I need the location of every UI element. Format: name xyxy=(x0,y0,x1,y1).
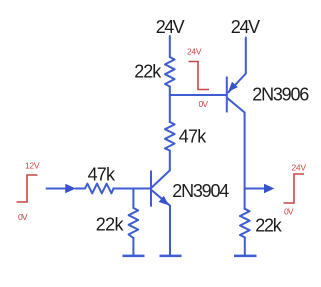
resistor 22k (right, output load) xyxy=(240,209,250,238)
svg-text:22k: 22k xyxy=(96,215,125,235)
wire 24V supply stub to R 22k top xyxy=(169,36,171,57)
wire 22k left to ground xyxy=(132,238,134,255)
resistor 47k (horizontal, base) xyxy=(85,184,114,194)
input signal arrowhead xyxy=(65,184,76,193)
wire output node down to 22k right xyxy=(244,189,246,210)
resistor 47k (vertical, collector load) xyxy=(165,122,175,151)
svg-text:0V: 0V xyxy=(199,99,209,109)
wire node B2 down to 47k top xyxy=(169,95,171,122)
svg-text:22k: 22k xyxy=(255,216,282,236)
transistor Q2 emitter arrowhead xyxy=(228,82,238,92)
svg-text:47k: 47k xyxy=(88,164,116,184)
svg-text:47k: 47k xyxy=(179,127,208,147)
resistor 22k (upper, from 24V) xyxy=(165,57,175,87)
wire 22k right to ground xyxy=(244,237,246,255)
wire arrow to 47k input resistor xyxy=(76,188,86,190)
wire node B2 to 2N3906 base xyxy=(170,94,227,96)
output signal arrowhead xyxy=(264,184,274,193)
wire 24V supply stub to Q2 emitter xyxy=(245,38,247,74)
wire input to arrow xyxy=(47,188,66,190)
svg-text:12V: 12V xyxy=(25,160,40,170)
svg-text:24V: 24V xyxy=(187,46,202,56)
wire node A down to 22k left xyxy=(132,189,134,209)
output step waveform 0V to 24V xyxy=(284,174,305,203)
wire 47k bottom to Q1 collector xyxy=(169,151,171,171)
ground (right, under 22k output) xyxy=(234,255,257,258)
svg-text:24V: 24V xyxy=(156,17,185,37)
svg-text:2N3904: 2N3904 xyxy=(172,181,229,201)
resistor 22k (left, base to ground) xyxy=(129,208,139,238)
svg-text:0V: 0V xyxy=(18,212,28,222)
svg-text:0V: 0V xyxy=(284,207,294,217)
transistor Q2 2N3906 collector lead xyxy=(227,98,245,113)
wire Q1 emitter to ground xyxy=(169,206,171,255)
wire Q2 collector down to output node xyxy=(244,113,246,189)
transistor Q1 2N3904 emitter lead xyxy=(152,190,170,205)
collector node step waveform 24V to 0V xyxy=(189,62,210,90)
svg-text:2N3906: 2N3906 xyxy=(252,85,309,105)
svg-text:24V: 24V xyxy=(231,17,261,37)
input step waveform 0V to 12V xyxy=(17,175,38,202)
wire 47k to Q1 base xyxy=(114,188,151,190)
transistor Q1 emitter arrowhead xyxy=(159,196,169,206)
transistor Q2 2N3906 emitter lead xyxy=(228,74,245,93)
transistor Q1 2N3904 collector lead xyxy=(152,170,170,187)
wire output node to arrow xyxy=(245,188,265,190)
svg-text:22k: 22k xyxy=(134,61,162,81)
transistor Q1 2N3904 bar xyxy=(150,171,152,206)
ground (left, under 22k) xyxy=(123,255,145,258)
svg-text:24V: 24V xyxy=(292,163,307,173)
transistor Q2 2N3906 bar xyxy=(226,77,228,111)
wire 22k bottom to node B2 xyxy=(169,87,171,96)
ground (center, under Q1 emitter) xyxy=(160,255,182,258)
